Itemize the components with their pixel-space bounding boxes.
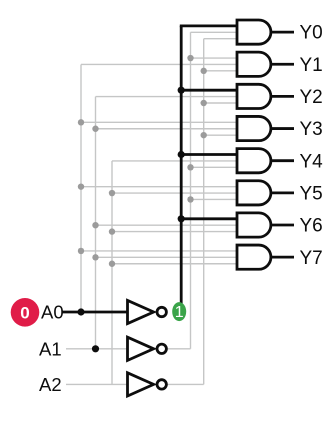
svg-text:0: 0 <box>20 303 29 322</box>
svg-text:A1: A1 <box>39 338 62 359</box>
wire A0 vertical riser <box>80 64 82 312</box>
wire /A0 to U0 input a <box>180 24 237 27</box>
and gate U5 output Y5 <box>237 181 271 205</box>
svg-text:Y6: Y6 <box>300 216 323 237</box>
wire /A2 from inverter N3 bubble <box>166 383 203 385</box>
and gate U3 output Y3 <box>237 116 271 140</box>
wire A2 to U7 input c <box>112 263 237 265</box>
junction A1 riser <box>92 345 99 352</box>
inverter N1 triangle <box>128 300 154 323</box>
wire Y7 output <box>271 256 294 259</box>
inverter N1 bubble <box>157 307 166 316</box>
wire A0 to U3 input a <box>81 121 237 123</box>
inverter N2 triangle <box>128 337 154 360</box>
junction A0/U3a <box>78 119 84 125</box>
svg-text:A0: A0 <box>41 302 64 323</box>
wire /A2 to U3 input c <box>204 134 237 136</box>
wire /A1 to U0 input b <box>191 31 238 33</box>
wire Y0 output <box>271 31 294 34</box>
inverter N3 triangle <box>128 373 154 396</box>
junction /A1/U1a <box>187 55 193 61</box>
junction A0/U5a <box>78 183 84 189</box>
wire A1 to U3 input b <box>96 128 238 130</box>
wire Y5 output <box>271 191 294 194</box>
wire Y3 output <box>271 127 294 130</box>
wire A2 to U6 input c <box>112 231 237 233</box>
wire A0 to U7 input a <box>81 250 237 252</box>
svg-text:Y5: Y5 <box>300 183 323 204</box>
wire A1 to U2 input b <box>96 96 238 98</box>
svg-text:Y2: Y2 <box>300 87 323 108</box>
and gate U4 output Y4 <box>237 149 271 173</box>
junction A2/U7c <box>109 261 115 267</box>
svg-text:Y7: Y7 <box>300 248 323 269</box>
svg-text:Y3: Y3 <box>300 119 323 140</box>
inverter N3 bubble <box>157 380 166 389</box>
junction A1/U3b <box>92 126 98 132</box>
node value badge 1 at inverter N1 output <box>172 302 186 321</box>
wire /A2 vertical riser <box>203 39 205 385</box>
wire /A1 to U5 input c <box>191 198 238 200</box>
svg-text:A2: A2 <box>39 374 62 395</box>
wire /A2 to U0 input c <box>204 38 237 40</box>
junction /A0/U6a <box>178 215 185 222</box>
wire Y6 output <box>271 224 294 227</box>
wire A1 to U6 input b <box>96 224 238 226</box>
wire /A0 to U4 input a <box>181 153 237 156</box>
wire /A1 to U1 input a <box>191 57 238 59</box>
junction A2/U5b <box>109 190 115 196</box>
wire A0 input <box>62 311 129 314</box>
wire /A0 vertical riser <box>180 26 183 304</box>
junction /A0/U4a <box>178 151 185 158</box>
wire /A1 from inverter N2 bubble <box>166 348 190 350</box>
wire Y1 output <box>271 63 294 66</box>
junction /A1/U5c <box>187 196 193 202</box>
wire A0 to U5 input a <box>81 186 237 188</box>
junction /A2/U2c <box>201 100 207 106</box>
wire A1 input <box>66 348 129 350</box>
wire /A0 to U2 input a <box>181 89 237 92</box>
junction /A0/U2a <box>178 87 185 94</box>
and gate U0 output Y0 <box>237 20 271 44</box>
wire /A0 to U6 input a <box>181 217 237 220</box>
wire /A2 to U2 input c <box>204 102 237 104</box>
wire A1 to U7 input b <box>96 256 238 258</box>
inverter N2 bubble <box>157 344 166 353</box>
svg-text:1: 1 <box>175 304 184 321</box>
svg-text:Y1: Y1 <box>300 55 323 76</box>
wire Y2 output <box>271 95 294 98</box>
wire /A2 to U1 input c <box>204 70 237 72</box>
wire /A1 to U4 input c <box>191 166 238 168</box>
wire A0 to U1 input b <box>81 63 237 65</box>
junction /A2/U3c <box>201 132 207 138</box>
wire Y4 output <box>271 159 294 162</box>
and gate U6 output Y6 <box>237 213 271 237</box>
junction /A1/U4c <box>187 164 193 170</box>
wire A2 input <box>66 383 129 385</box>
wire A2 to U4 input b <box>112 160 237 162</box>
wire A2 vertical riser <box>111 161 113 385</box>
and gate U2 output Y2 <box>237 84 271 108</box>
junction A1/U7b <box>92 254 98 260</box>
junction A1/U6b <box>92 222 98 228</box>
and gate U1 output Y1 <box>237 52 271 76</box>
wire A2 to U5 input b <box>112 192 237 194</box>
junction A0 riser <box>77 308 84 315</box>
input value badge 0 on A0 <box>11 298 40 327</box>
svg-text:Y4: Y4 <box>300 151 324 172</box>
junction A2/U6c <box>109 228 115 234</box>
wire /A1 vertical riser <box>190 32 192 349</box>
and gate U7 output Y7 <box>237 245 271 269</box>
svg-text:Y0: Y0 <box>300 23 323 44</box>
wire A1 vertical riser <box>95 97 97 349</box>
junction /A2/U1c <box>201 68 207 74</box>
junction A0/U7a <box>78 248 84 254</box>
